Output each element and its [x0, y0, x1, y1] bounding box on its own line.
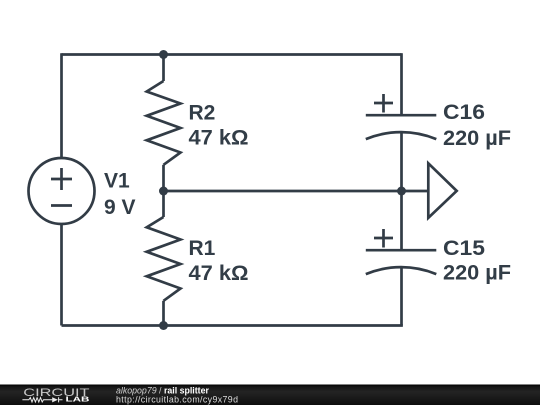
node junction dot bottom — [159, 321, 168, 330]
svg-text:V1: V1 — [104, 170, 130, 193]
resistor R2 — [147, 81, 181, 165]
svg-text:R2: R2 — [189, 101, 216, 124]
C15 plus sign — [374, 229, 393, 248]
svg-text:47 kΩ: 47 kΩ — [189, 262, 249, 285]
wire middle vertical top stub — [162, 53, 165, 81]
output flag triangle — [428, 163, 456, 218]
capacitor C16 top plate — [366, 114, 437, 117]
svg-text:220 µF: 220 µF — [443, 262, 511, 285]
capacitor C15 top plate — [366, 249, 437, 252]
wire C16 to mid rail — [400, 133, 403, 191]
node junction dot middle — [159, 187, 168, 196]
node junction dot right — [397, 187, 406, 196]
wire top rail — [62, 53, 402, 56]
svg-text:C15: C15 — [443, 237, 485, 260]
wire R1 to bottom rail — [162, 301, 165, 326]
wire right vertical top — [400, 53, 403, 114]
logo diode triangle — [52, 397, 58, 402]
wire R2 to mid rail — [162, 165, 165, 191]
wire left vertical top — [60, 53, 63, 158]
capacitor C16 curved plate — [366, 132, 437, 139]
C16 plus sign — [374, 94, 393, 113]
wire mid rail to R1 — [162, 191, 165, 217]
V1 plus sign — [51, 168, 72, 190]
wire left vertical bottom — [60, 224, 63, 326]
svg-text:http://circuitlab.com/cy9x79d: http://circuitlab.com/cy9x79d — [116, 395, 238, 405]
node junction dot top — [159, 50, 168, 59]
V1 minus sign — [51, 204, 72, 207]
wire C15 to bottom rail — [400, 268, 403, 326]
resistor R1 — [147, 217, 181, 301]
wire mid rail to C15 — [400, 191, 403, 249]
svg-text:R1: R1 — [189, 237, 216, 260]
logo diode wire — [59, 397, 63, 402]
wire bottom rail — [62, 324, 403, 327]
capacitor C15 curved plate — [366, 267, 437, 274]
svg-text:220 µF: 220 µF — [443, 127, 511, 150]
svg-text:9 V: 9 V — [104, 196, 136, 219]
voltage source V1 — [29, 158, 95, 224]
svg-text:C16: C16 — [443, 101, 485, 124]
svg-text:LAB: LAB — [66, 395, 90, 404]
svg-text:47 kΩ: 47 kΩ — [189, 127, 249, 150]
logo resistor zigzag — [22, 398, 52, 402]
wire middle rail — [164, 190, 429, 193]
